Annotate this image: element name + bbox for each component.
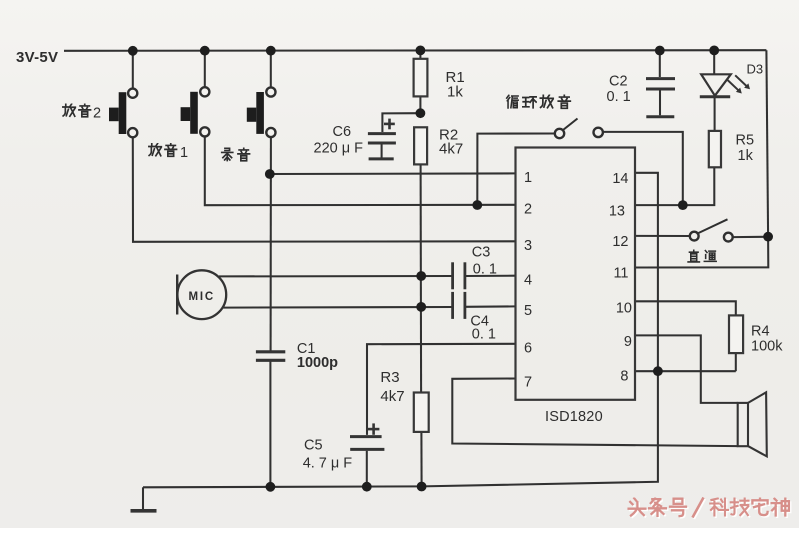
svg-text:2: 2	[524, 202, 532, 218]
wire pin 11 to V+	[635, 237, 768, 268]
wire pin 13 to R5	[635, 167, 714, 205]
wire V+ right-side drop	[766, 50, 768, 237]
svg-text:1000p: 1000p	[297, 355, 338, 371]
svg-text:1k: 1k	[738, 148, 754, 164]
svg-text:13: 13	[609, 204, 625, 220]
wire R1 top lead	[419, 50, 421, 58]
svg-text:R3: R3	[380, 369, 399, 386]
resistor R4	[729, 315, 743, 353]
svg-text:ISD1820: ISD1820	[545, 409, 603, 425]
wire S2 bottom to pin 2	[205, 137, 516, 206]
svg-text:MIC: MIC	[189, 291, 215, 303]
svg-text:C2: C2	[609, 74, 628, 90]
capacitor C1 plates	[256, 352, 285, 361]
svg-text:1: 1	[180, 145, 188, 161]
svg-text:12: 12	[612, 234, 628, 250]
svg-text:11: 11	[613, 266, 628, 282]
C6 plus sign	[384, 119, 395, 130]
wire loop-switch right branch	[603, 132, 683, 205]
pushbutton S3 录音	[247, 87, 276, 137]
wire pin 7 to speaker bottom	[452, 379, 737, 447]
svg-text:3V-5V: 3V-5V	[16, 49, 58, 66]
resistor R5	[709, 131, 721, 167]
wire MIC top to C3	[219, 275, 452, 277]
capacitor C2 plates	[646, 79, 675, 117]
svg-text:10: 10	[616, 301, 632, 317]
label 循环放音	[507, 95, 571, 108]
pushbutton S1 放音2	[109, 89, 137, 138]
C5 plus sign	[368, 423, 380, 434]
wire direct-switch right to V+	[733, 236, 767, 238]
resistor R2	[414, 127, 427, 164]
wire loop-switch left branch	[477, 134, 555, 206]
wire D3 to R5	[714, 98, 716, 131]
wire R3 bottom to ground	[420, 432, 422, 487]
wire pin 9 to speaker top	[635, 335, 738, 403]
label 直通	[688, 250, 716, 262]
svg-text:0. 1: 0. 1	[473, 262, 497, 278]
ground stub	[142, 487, 144, 509]
svg-text:R5: R5	[736, 133, 755, 149]
svg-text:C5: C5	[304, 438, 323, 454]
wire S3 top	[270, 51, 272, 88]
ground symbol	[131, 509, 157, 513]
svg-text:220 μ F: 220 μ F	[314, 141, 364, 157]
svg-text:7: 7	[524, 375, 532, 391]
wire MIC bottom to C4	[224, 306, 453, 309]
wire R1 bottom lead	[419, 96, 421, 113]
wire R4 bottom to pin 8 line	[735, 353, 737, 371]
capacitor C5 plates	[350, 437, 384, 450]
wire V+ rail	[64, 49, 766, 52]
svg-text:C6: C6	[333, 124, 352, 140]
svg-text:8: 8	[620, 369, 628, 385]
wire S1 top	[132, 51, 134, 89]
wire pin 6 to C5	[367, 344, 516, 435]
svg-text:3: 3	[524, 238, 532, 254]
svg-text:0. 1: 0. 1	[472, 327, 496, 343]
wire C6 mid lead	[381, 145, 383, 158]
capacitor C3 plates	[453, 262, 465, 289]
svg-text:D3: D3	[747, 62, 764, 77]
pushbutton S2 放音1	[181, 87, 210, 136]
wire C6 branch	[382, 113, 420, 132]
wire pin 14 to ground rail	[143, 173, 658, 488]
watermark 头条号/科技宅神	[630, 499, 790, 519]
wire pin 1	[270, 172, 516, 175]
svg-text:4. 7 μ F: 4. 7 μ F	[303, 456, 353, 472]
wire C2 top lead	[659, 51, 661, 78]
label 放音1	[149, 143, 177, 156]
resistor R3	[414, 393, 429, 432]
svg-text:4: 4	[524, 273, 532, 289]
capacitor C6 plates	[368, 134, 396, 159]
wire pin 8	[635, 370, 736, 372]
svg-text:6: 6	[524, 341, 532, 357]
wire C2 bottom lead	[659, 90, 661, 115]
resistor R1	[414, 59, 428, 97]
svg-text:5: 5	[524, 303, 532, 319]
label 放音2	[63, 104, 91, 117]
wire C3 to pin 4	[465, 275, 516, 277]
svg-text:0. 1: 0. 1	[607, 89, 631, 105]
wire C1 bottom to ground	[269, 362, 271, 487]
svg-text:4k7: 4k7	[439, 141, 463, 158]
svg-text:1: 1	[524, 170, 532, 186]
svg-text:1k: 1k	[447, 84, 463, 101]
wire pin 10 to R4	[635, 301, 736, 315]
LED D3	[700, 74, 748, 96]
wire S3 bottom down to C1	[270, 137, 272, 351]
IC pin numbers left	[524, 170, 532, 391]
wire D3 top lead	[713, 50, 715, 74]
svg-text:9: 9	[624, 334, 632, 350]
label 录音	[222, 148, 250, 161]
svg-text:2: 2	[93, 106, 101, 122]
svg-text:14: 14	[612, 171, 628, 187]
wire S2 top	[204, 51, 206, 88]
microphone MIC	[177, 270, 226, 319]
svg-text:4k7: 4k7	[380, 388, 404, 405]
svg-text:100k: 100k	[751, 339, 783, 355]
IC pin numbers right	[609, 171, 632, 385]
svg-text:R4: R4	[751, 324, 770, 340]
speaker	[738, 392, 767, 456]
wire pin 12 to switch	[635, 235, 690, 237]
wire R2 bottom down to R3	[420, 164, 423, 392]
capacitor C4 plates	[453, 292, 465, 319]
switch 循环放音	[555, 119, 603, 139]
wire S1 bottom to pin 3	[133, 137, 516, 242]
svg-text:C3: C3	[472, 245, 491, 261]
wire C4 to pin 5	[465, 305, 516, 307]
wire C5 bottom to ground	[366, 451, 368, 487]
IC U1 ISD1820 body	[516, 148, 636, 400]
switch 直通	[690, 219, 733, 241]
